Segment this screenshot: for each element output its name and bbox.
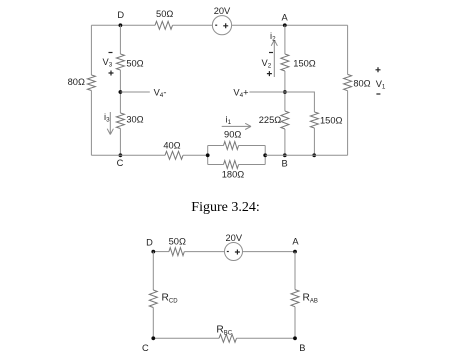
- svg-text:180Ω: 180Ω: [222, 170, 245, 180]
- wire box to B to right corner: [265, 154, 347, 156]
- wire right edge lower (bottom circuit): [294, 307, 296, 339]
- wire from source to node A and right corner: [232, 24, 348, 26]
- resistor 80ohm left: [87, 75, 95, 91]
- wire between 50ohm and 20V source: [173, 24, 213, 26]
- svg-text:40Ω: 40Ω: [163, 140, 180, 150]
- wire 40ohm to parallel box: [183, 154, 208, 156]
- wire top-left (bottom circuit): [153, 251, 169, 253]
- source 20V (bottom circuit): [225, 243, 243, 261]
- node C dot: [119, 153, 123, 157]
- svg-text:50Ω: 50Ω: [156, 9, 173, 19]
- wire V4+ node horizontal: [249, 92, 314, 112]
- wire box top-left: [208, 145, 224, 147]
- node B dot: [283, 153, 287, 157]
- node C dot (bottom circuit): [151, 336, 155, 340]
- resistor 50ohm (bottom circuit): [169, 248, 184, 256]
- node parallel-box right dot: [263, 153, 267, 157]
- minus mark V2: [269, 52, 273, 54]
- svg-text:80Ω: 80Ω: [68, 77, 85, 87]
- svg-text:20V: 20V: [214, 6, 231, 16]
- svg-text:80Ω: 80Ω: [353, 79, 370, 89]
- wire 150ohm to V4 node: [284, 71, 286, 111]
- svg-text:150Ω: 150Ω: [293, 59, 316, 69]
- minus mark V3: [109, 52, 113, 54]
- node V2-bottom junction dot: [283, 90, 287, 94]
- wire 150ohm right to bottom: [313, 128, 315, 155]
- plus mark V2: [267, 71, 272, 76]
- parallel box left side: [207, 146, 209, 165]
- node A dot (bottom circuit): [293, 250, 297, 254]
- svg-text:C: C: [142, 343, 149, 353]
- svg-text:225Ω: 225Ω: [259, 115, 282, 125]
- resistor 180ohm: [224, 161, 239, 169]
- svg-text:B: B: [281, 159, 287, 169]
- wire box top-right: [239, 145, 266, 147]
- resistor 50ohm vertical: [116, 54, 124, 70]
- wire right edge upper (bottom circuit): [294, 252, 296, 290]
- node junction dot at bottom of right 150ohm: [312, 153, 316, 157]
- node D dot: [119, 23, 123, 27]
- wire D branch upper: [119, 25, 121, 54]
- wire 30ohm to C: [119, 129, 121, 156]
- wire source to A (bottom circuit): [243, 251, 296, 253]
- resistor 40ohm: [165, 151, 183, 159]
- source 20V (top circuit): [212, 16, 231, 35]
- svg-text:50Ω: 50Ω: [126, 58, 143, 68]
- wire left edge lower: [90, 91, 92, 156]
- svg-text:150Ω: 150Ω: [320, 116, 343, 126]
- wire 50ohm to source (bottom circuit): [184, 251, 224, 253]
- resistor RBC: [219, 334, 237, 342]
- node Vd junction dot: [119, 90, 123, 94]
- resistor 225ohm: [281, 111, 289, 129]
- svg-text:D: D: [117, 10, 124, 20]
- resistor RCD: [149, 290, 157, 308]
- svg-text:B: B: [299, 343, 305, 353]
- parallel box right side: [264, 146, 266, 165]
- wire 225ohm to B: [284, 129, 286, 155]
- svg-text:50Ω: 50Ω: [169, 237, 186, 247]
- resistor 80ohm right: [344, 74, 352, 90]
- wire top-left D segment: [91, 24, 155, 26]
- wire right edge lower: [347, 91, 349, 156]
- svg-text:C: C: [117, 158, 124, 168]
- wire left edge upper (bottom circuit): [152, 252, 154, 290]
- svg-text:90Ω: 90Ω: [224, 130, 241, 140]
- resistor 90ohm: [224, 142, 239, 150]
- resistor RAB: [291, 290, 299, 307]
- svg-text:A: A: [292, 236, 299, 246]
- wire bottom-right (bottom circuit): [237, 337, 296, 339]
- svg-text:30Ω: 30Ω: [126, 115, 143, 125]
- resistor 50ohm top (horizontal): [155, 21, 173, 29]
- wire box bottom-right: [239, 164, 266, 166]
- wire bottom-left (bottom circuit): [153, 337, 219, 339]
- arrow i2: [271, 40, 277, 77]
- wire bottom left segment: [91, 154, 165, 156]
- arrow i1: [222, 123, 251, 129]
- node parallel-box left dot: [206, 153, 210, 157]
- svg-text:Figure 3.24:: Figure 3.24:: [191, 200, 259, 215]
- wire left edge lower (bottom circuit): [152, 308, 154, 339]
- arrow i3: [107, 112, 113, 135]
- resistor 150ohm right: [310, 112, 318, 128]
- wire 50ohm to Vd node: [119, 70, 121, 113]
- svg-text:20V: 20V: [226, 233, 243, 243]
- plus mark V1: [376, 67, 381, 72]
- svg-text:A: A: [281, 13, 288, 23]
- wire right edge upper: [347, 25, 349, 74]
- wire box bottom-left: [208, 164, 224, 166]
- wire A branch upper: [284, 25, 286, 54]
- wire Vd stub right: [120, 91, 149, 93]
- node A dot: [283, 23, 287, 27]
- node D dot (bottom circuit): [151, 250, 155, 254]
- resistor 30ohm: [116, 113, 124, 129]
- svg-text:D: D: [146, 237, 153, 247]
- wire left edge upper: [90, 25, 92, 75]
- node B dot (bottom circuit): [293, 336, 297, 340]
- resistor 150ohm (V2 branch): [281, 54, 289, 71]
- minus mark V1: [376, 93, 380, 95]
- plus mark V3: [109, 71, 114, 76]
